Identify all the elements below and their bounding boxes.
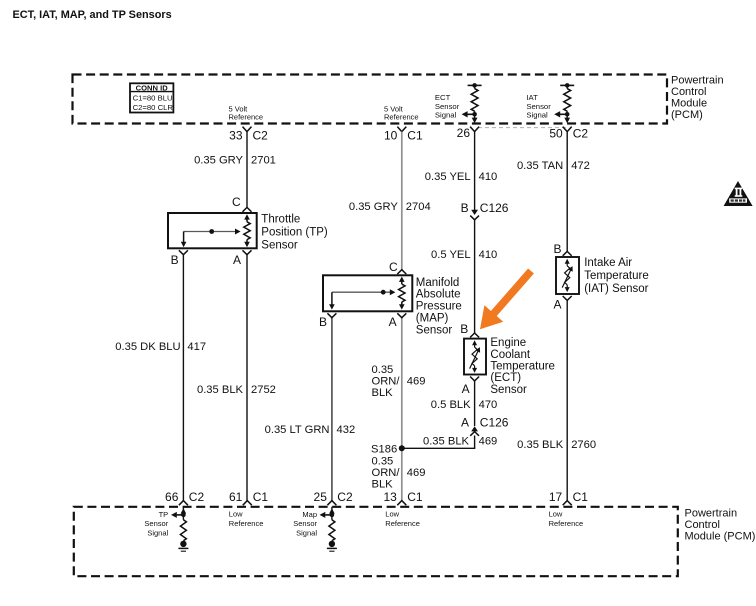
svg-text:410: 410: [479, 249, 498, 261]
svg-text:Reference: Reference: [385, 519, 420, 528]
svg-text:C2=80 CLR: C2=80 CLR: [133, 103, 174, 112]
svg-text:0.35 YEL: 0.35 YEL: [425, 171, 471, 183]
svg-text:Sensor: Sensor: [261, 240, 298, 252]
svg-text:25: 25: [314, 490, 328, 504]
svg-text:2760: 2760: [571, 439, 596, 451]
svg-text:17: 17: [549, 490, 563, 504]
svg-text:0.35 GRY: 0.35 GRY: [194, 155, 243, 167]
svg-text:(ECT): (ECT): [490, 372, 521, 384]
svg-text:Signal: Signal: [435, 110, 457, 119]
svg-text:B: B: [460, 322, 468, 336]
svg-text:C1: C1: [253, 490, 269, 504]
svg-text:Low: Low: [549, 509, 563, 518]
svg-text:61: 61: [229, 490, 243, 504]
svg-text:A: A: [461, 416, 469, 430]
svg-text:10: 10: [384, 129, 398, 143]
svg-text:13: 13: [383, 490, 397, 504]
svg-text:TP: TP: [159, 510, 169, 519]
svg-text:Control: Control: [671, 86, 706, 98]
svg-text:Signal: Signal: [526, 110, 548, 119]
svg-text:417: 417: [187, 341, 206, 353]
svg-text:Sensor: Sensor: [144, 519, 168, 528]
svg-text:A: A: [389, 315, 397, 329]
svg-text:472: 472: [571, 160, 590, 172]
svg-text:Coolant: Coolant: [490, 349, 530, 361]
svg-text:66: 66: [165, 490, 179, 504]
svg-text:0.35 BLK: 0.35 BLK: [517, 439, 564, 451]
svg-text:26: 26: [457, 126, 471, 140]
svg-text:Map: Map: [302, 510, 317, 519]
svg-text:2752: 2752: [251, 384, 276, 396]
svg-text:C2: C2: [253, 129, 269, 143]
svg-text:C1: C1: [407, 490, 423, 504]
svg-text:Low: Low: [385, 509, 399, 518]
svg-text:Temperature: Temperature: [490, 361, 555, 373]
svg-text:0.35 BLK: 0.35 BLK: [197, 384, 244, 396]
svg-text:BLK: BLK: [372, 479, 394, 491]
svg-text:Reference: Reference: [229, 113, 264, 122]
svg-text:Reference: Reference: [549, 519, 584, 528]
svg-text:Powertrain: Powertrain: [685, 508, 738, 520]
svg-text:0.5 YEL: 0.5 YEL: [431, 249, 471, 261]
svg-text:0.35: 0.35: [372, 364, 394, 376]
svg-text:C1: C1: [407, 129, 423, 143]
svg-text:469: 469: [407, 467, 426, 479]
svg-text:Low: Low: [229, 509, 243, 518]
svg-text:0.35 GRY: 0.35 GRY: [349, 201, 398, 213]
svg-text:Module (PCM): Module (PCM): [685, 531, 756, 543]
svg-text:Temperature: Temperature: [584, 270, 649, 282]
svg-text:0.35: 0.35: [372, 456, 394, 468]
svg-text:Module: Module: [671, 98, 707, 110]
svg-text:Reference: Reference: [384, 113, 419, 122]
svg-text:C2: C2: [573, 127, 589, 141]
svg-text:Manifold: Manifold: [416, 277, 459, 289]
svg-text:0.35 BLK: 0.35 BLK: [423, 436, 470, 448]
svg-text:B: B: [461, 201, 469, 215]
svg-text:C: C: [389, 260, 398, 274]
svg-text:S186: S186: [371, 444, 397, 456]
svg-text:Signal: Signal: [147, 529, 168, 538]
svg-text:469: 469: [407, 376, 426, 388]
svg-text:50: 50: [549, 127, 563, 141]
svg-text:Control: Control: [685, 519, 720, 531]
svg-text:Sensor: Sensor: [416, 324, 453, 336]
svg-text:410: 410: [479, 171, 498, 183]
svg-text:C1=80 BLU: C1=80 BLU: [133, 94, 173, 103]
svg-text:470: 470: [479, 399, 498, 411]
svg-text:2704: 2704: [406, 201, 431, 213]
svg-text:33: 33: [229, 129, 243, 143]
svg-text:Powertrain: Powertrain: [671, 75, 724, 87]
svg-text:Pressure: Pressure: [416, 301, 462, 313]
svg-text:Absolute: Absolute: [416, 289, 461, 301]
svg-text:BLK: BLK: [372, 387, 394, 399]
svg-text:(IAT) Sensor: (IAT) Sensor: [584, 283, 648, 295]
svg-text:ECT, IAT, MAP, and TP Sensors: ECT, IAT, MAP, and TP Sensors: [13, 9, 172, 21]
svg-text:B: B: [553, 242, 561, 256]
svg-text:0.5 BLK: 0.5 BLK: [431, 399, 471, 411]
svg-text:C2: C2: [337, 490, 353, 504]
svg-text:A: A: [462, 382, 470, 396]
svg-text:0.35 DK BLU: 0.35 DK BLU: [115, 341, 180, 353]
svg-text:469: 469: [479, 436, 498, 448]
svg-text:B: B: [171, 253, 179, 267]
svg-text:Engine: Engine: [490, 337, 526, 349]
svg-text:C2: C2: [189, 490, 205, 504]
svg-text:ORN/: ORN/: [372, 376, 401, 388]
svg-text:A: A: [233, 253, 241, 267]
svg-text:CONN ID: CONN ID: [136, 83, 169, 92]
svg-text:A: A: [553, 297, 561, 311]
svg-text:432: 432: [337, 424, 356, 436]
svg-text:ORN/: ORN/: [372, 467, 401, 479]
svg-text:Reference: Reference: [229, 519, 264, 528]
svg-text:C126: C126: [480, 201, 509, 215]
svg-text:2701: 2701: [251, 155, 276, 167]
svg-text:Sensor: Sensor: [293, 519, 317, 528]
svg-text:Signal: Signal: [296, 529, 317, 538]
svg-text:B: B: [319, 315, 327, 329]
svg-text:Position (TP): Position (TP): [261, 227, 328, 239]
svg-text:(PCM): (PCM): [671, 109, 703, 121]
svg-text:Intake Air: Intake Air: [584, 257, 632, 269]
svg-text:C126: C126: [480, 416, 509, 430]
svg-text:0.35 TAN: 0.35 TAN: [517, 160, 563, 172]
svg-text:C: C: [232, 195, 241, 209]
svg-text:(MAP): (MAP): [416, 313, 449, 325]
svg-text:C1: C1: [573, 490, 589, 504]
svg-text:Sensor: Sensor: [490, 384, 527, 396]
svg-text:Throttle: Throttle: [261, 213, 300, 225]
svg-text:0.35 LT GRN: 0.35 LT GRN: [265, 424, 330, 436]
